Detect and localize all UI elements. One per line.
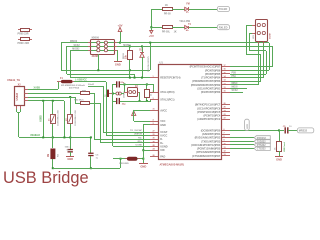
- junction R10 bottom: [146, 100, 148, 102]
- svg-text:UVCC: UVCC: [160, 135, 167, 138]
- svg-text:D-: D-: [160, 138, 163, 141]
- diode D3 (reset protection): [140, 53, 144, 58]
- LED LED1 (green): [185, 7, 188, 10]
- junction D+ Z2: [69, 96, 71, 98]
- wire GND col2: [64, 101, 66, 137]
- svg-text:+5V: +5V: [149, 34, 154, 38]
- wire crystal left: [113, 93, 116, 95]
- svg-text:22mR: 22mR: [88, 84, 94, 86]
- wire Z1 top: [52, 101, 54, 114]
- svg-text:16MHz: 16MHz: [123, 91, 125, 98]
- wire UVCC: [106, 135, 150, 137]
- svg-text:68R: 68R: [82, 90, 86, 92]
- svg-text:P5B: P5B: [232, 73, 237, 75]
- wire RD-: [94, 139, 150, 141]
- junction rail-z1: [52, 136, 54, 138]
- wire nest PB5 to connector left pin: [230, 74, 266, 76]
- wire XTAL1 top: [113, 84, 116, 86]
- svg-text:USHIELD: USHIELD: [30, 135, 40, 137]
- svg-text:SCK2: SCK2: [74, 45, 81, 47]
- ferrite bead L2 (filled): [127, 157, 138, 161]
- svg-text:XTAL1(PC0): XTAL1(PC0): [160, 91, 174, 94]
- svg-text:30: 30: [153, 138, 155, 140]
- X2 pin stubs: [24, 89, 28, 91]
- wire IC GND column: [143, 125, 145, 164]
- junction R10 top: [146, 83, 148, 85]
- wire +5V rail H1 header to nest: [117, 42, 269, 44]
- svg-text:22p: 22p: [120, 82, 124, 84]
- svg-text:CD1206-S01575: CD1206-S01575: [148, 56, 150, 72]
- varistor Z1: [51, 115, 56, 124]
- svg-text:YELLOW: YELLOW: [179, 20, 190, 23]
- X2 shield stubs: [16, 106, 18, 109]
- wire RD+: [100, 142, 150, 144]
- wire RESET net: [71, 77, 150, 79]
- resistor R2 68R: [81, 102, 90, 105]
- svg-text:22: 22: [224, 118, 226, 120]
- wire +5V rail to LED resistors (vertical): [151, 9, 153, 27]
- wire USBVCC: [74, 81, 106, 83]
- svg-text:D+: D+: [160, 142, 164, 145]
- wire header row1 loop down: [61, 43, 63, 70]
- wire JP1 left riser: [124, 84, 126, 92]
- junction rowA loop on rail: [149, 42, 151, 44]
- svg-text:2X2M: 2X2M: [270, 33, 272, 39]
- wire R10 top: [146, 84, 148, 89]
- svg-text:XUSB: XUSB: [34, 87, 41, 89]
- resistor R6 1k: [277, 142, 282, 152]
- svg-text:PAD: PAD: [160, 156, 165, 159]
- svg-text:27: 27: [153, 130, 155, 132]
- svg-text:PR-05: PR-05: [164, 13, 171, 16]
- svg-text:GROUND: GROUND: [119, 163, 129, 165]
- wire USB GND: [28, 100, 64, 102]
- wire UGND column: [43, 101, 45, 137]
- wire nest PB6: [230, 70, 269, 72]
- svg-text:7: 7: [224, 132, 225, 134]
- wire D3 top: [142, 46, 144, 53]
- wire C7 top: [70, 137, 72, 149]
- wire R7 top: [129, 46, 131, 51]
- wire nest PB3 to connector left pin: [230, 81, 261, 83]
- wire header row3 down to reset: [70, 50, 72, 78]
- svg-text:(TXD1/INT3)PD3: (TXD1/INT3)PD3: [201, 140, 221, 143]
- net flag RESET-EXT: [297, 128, 314, 133]
- net flag TXLED: [217, 7, 229, 12]
- svg-text:PR-05L: PR-05L: [162, 31, 171, 34]
- spare resistor R8 22R: [21, 29, 30, 32]
- svg-text:(SS/PCINT0)PB0: (SS/PCINT0)PB0: [201, 91, 221, 94]
- ground GND (C7): [70, 152, 72, 156]
- wire VCC: [134, 121, 150, 123]
- net flag PD3: [254, 139, 270, 143]
- svg-text:(PD02/MOSI/PCINT2)PB2: (PD02/MOSI/PCINT2)PB2: [191, 84, 221, 87]
- svg-text:(RXD1/AIN1/INT2)PD2: (RXD1/AIN1/INT2)PD2: [195, 137, 221, 140]
- svg-text:CG0603MLC-05E: CG0603MLC-05E: [75, 109, 77, 126]
- header right pin stubs: [114, 42, 117, 44]
- net flag vertical (DTR): [245, 119, 250, 130]
- svg-text:31: 31: [153, 134, 155, 136]
- svg-text:MISO2: MISO2: [70, 41, 78, 43]
- svg-text:1K: 1K: [165, 4, 168, 7]
- wire VBUS: [28, 89, 58, 91]
- junction gnd rail c6: [90, 167, 92, 169]
- wire GND pin: [143, 124, 150, 126]
- svg-text:USB-B: USB-B: [16, 93, 19, 101]
- svg-text:6: 6: [224, 129, 225, 131]
- wire USHIELD rail: [19, 137, 91, 139]
- junction R7 rowA crossing: [129, 69, 131, 71]
- wire R4 to LED1: [172, 9, 185, 11]
- junction rail-col2: [63, 136, 65, 138]
- svg-text:(OC1A/PCINT8)PC6: (OC1A/PCINT8)PC6: [197, 107, 221, 110]
- junction ugnd: [142, 149, 144, 151]
- svg-text:RD-: RD-: [138, 137, 142, 139]
- svg-text:L-USBVCC: L-USBVCC: [75, 79, 87, 81]
- wire UCAP: [103, 132, 150, 134]
- svg-text:29: 29: [153, 141, 155, 143]
- junction rail-z2: [69, 136, 71, 138]
- wire PD flag 3: [230, 144, 254, 146]
- svg-text:USBD: USBD: [41, 115, 43, 122]
- wire AVCC: [134, 110, 150, 112]
- svg-text:22p: 22p: [122, 104, 126, 106]
- svg-text:MISO: MISO: [232, 83, 238, 85]
- junction rail2-gnd: [142, 158, 144, 160]
- wire H2 rail to nest: [117, 46, 272, 48]
- svg-text:13: 13: [224, 80, 226, 82]
- LED LED2 (yellow): [185, 26, 188, 29]
- wire Z2 bottom: [70, 124, 72, 137]
- svg-text:3: 3: [153, 98, 154, 100]
- svg-text:PR05 22R: PR05 22R: [18, 33, 29, 36]
- svg-text:USB level: USB level: [284, 142, 286, 152]
- junction GND col1: [42, 100, 44, 102]
- wire PD flag 2: [230, 141, 254, 143]
- header left pin stubs: [88, 42, 91, 44]
- wire Z1 bottom: [52, 124, 54, 137]
- svg-text:SCK2: SCK2: [232, 90, 239, 92]
- svg-text:UCAP: UCAP: [160, 131, 167, 134]
- pin header JP1 1x2: [128, 88, 138, 97]
- capacitor C2 22p: [116, 98, 117, 104]
- IC right pin stubs group PD: [222, 130, 230, 132]
- JP1 pin stubs: [124, 92, 128, 94]
- junction JP1 xtal2 wire: [139, 100, 141, 102]
- junction JP1 xtal wire: [124, 83, 126, 85]
- wire R7 to RESET: [129, 60, 131, 78]
- wire R5 to LED2: [172, 27, 185, 29]
- svg-text:RESET(PCINT14): RESET(PCINT14): [160, 77, 180, 80]
- net flag PD2: [254, 136, 270, 140]
- IC left pin stubs: [150, 77, 158, 79]
- fuse F1 500mA: [57, 81, 61, 83]
- junction D3 top: [141, 45, 143, 47]
- svg-text:(PD0/MISO/PCINT3)PB3: (PD0/MISO/PCINT3)PB3: [192, 80, 221, 83]
- wire gnd rail2: [113, 158, 143, 160]
- wire LED1 to TXLED flag: [189, 9, 217, 11]
- wire C5 to flag: [288, 130, 297, 132]
- svg-text:(T1/PCINT4)PB4: (T1/PCINT4)PB4: [201, 77, 221, 80]
- ground riser (header): [117, 50, 119, 62]
- connector bottom pin stubs: [258, 41, 260, 44]
- wire UID pin: [143, 150, 150, 152]
- junction RESET-row2: [134, 77, 136, 79]
- capacitor C6 1u: [88, 153, 93, 154]
- svg-text:XTAL2(PC1): XTAL2(PC1): [160, 98, 174, 101]
- wire R6 to gnd: [279, 151, 281, 156]
- junction rail-c6: [90, 136, 92, 138]
- wire C2 left: [113, 101, 116, 103]
- svg-text:USB Bridge: USB Bridge: [3, 169, 89, 187]
- wire R1 to RD-: [90, 93, 94, 95]
- svg-text:+5V: +5V: [117, 23, 122, 27]
- svg-text:(RTS/AIN6/INT6)PD6: (RTS/AIN6/INT6)PD6: [196, 151, 221, 154]
- resistor R1 68R: [81, 92, 90, 95]
- wire R3 top: [52, 137, 54, 148]
- svg-text:RN1D: RN1D: [123, 53, 125, 59]
- svg-text:9: 9: [224, 140, 225, 142]
- wire LED2 to RXLED flag: [189, 27, 217, 29]
- junction DTR: [278, 129, 280, 131]
- svg-text:1: 1: [153, 76, 154, 78]
- wire D+: [28, 97, 75, 99]
- svg-text:MOSI2: MOSI2: [72, 49, 80, 51]
- svg-text:1K: 1K: [174, 31, 177, 34]
- IC right pin stubs group PC: [222, 104, 230, 106]
- wires header left pins: [61, 42, 88, 44]
- resistor R5 1K (RX LED): [163, 26, 173, 29]
- junction gnd rail left: [52, 167, 54, 169]
- testpoint TP1: [107, 90, 109, 97]
- junction RESET-D3: [141, 77, 143, 79]
- wire D3 to RESET: [142, 57, 144, 78]
- wire C6 top: [90, 137, 92, 153]
- resistor R3 1M (filled): [50, 149, 55, 160]
- svg-text:11: 11: [224, 87, 226, 89]
- crystal Q1 16MHz: [116, 92, 119, 95]
- svg-text:CTS232: CTS232: [257, 148, 266, 151]
- ground GND (R6): [275, 156, 283, 158]
- svg-text:(PCINT5)PB5: (PCINT5)PB5: [205, 73, 221, 76]
- wire crystal right: [121, 93, 124, 95]
- wire UCAP top tap: [88, 86, 103, 88]
- svg-text:(OC0B/INT0)PD0: (OC0B/INT0)PD0: [201, 129, 221, 132]
- wire row1 +5V to R4: [151, 9, 163, 11]
- svg-text:3: 3: [153, 123, 154, 125]
- svg-text:28: 28: [153, 145, 155, 147]
- wire DTR net: [230, 130, 284, 132]
- svg-text:(CTS/HWB/AIN7/T0)PD7: (CTS/HWB/AIN7/T0)PD7: [192, 155, 221, 158]
- junction +5V arrow tap: [119, 42, 121, 44]
- wire JP1 right riser: [139, 92, 141, 101]
- svg-text:31: 31: [153, 109, 155, 111]
- svg-text:23: 23: [224, 114, 226, 116]
- wire header bottom pin down: [98, 54, 100, 70]
- pin header JP2 2x3: [91, 40, 115, 55]
- svg-text:AVCC: AVCC: [160, 109, 167, 112]
- svg-text:25: 25: [224, 107, 226, 109]
- capacitor C7 100n: [68, 149, 73, 150]
- capacitor C5 100n (series): [285, 127, 286, 133]
- wire PD flag 1: [230, 137, 254, 139]
- svg-text:(PCINT9/OC1B)PC5: (PCINT9/OC1B)PC5: [197, 111, 221, 114]
- wire row1 loop horizontal: [61, 70, 150, 72]
- svg-text:10: 10: [224, 91, 226, 93]
- supply +5V arrow (header rail): [120, 32, 122, 43]
- ground GND (header): [114, 61, 122, 63]
- varistor Z2: [68, 115, 73, 124]
- svg-text:(PCINT12/AIN6)PD5: (PCINT12/AIN6)PD5: [197, 148, 221, 151]
- svg-text:UGND: UGND: [136, 145, 143, 147]
- op-amp U1 ATMEGA8U2 (MCU): [159, 65, 222, 160]
- svg-text:2: 2: [153, 91, 154, 93]
- connector SV1 2x2 (top right): [256, 20, 268, 42]
- wire D- to R1: [28, 93, 81, 95]
- svg-text:12: 12: [224, 83, 226, 85]
- wire USBVCC to UVCC pin: [106, 82, 108, 136]
- wire nest PB4 to connector bottom: [230, 77, 264, 79]
- net flag PD4: [254, 143, 270, 147]
- wire R10 bottom: [146, 98, 148, 101]
- svg-text:VCC: VCC: [160, 120, 165, 123]
- wire row2 +5V to R5: [151, 27, 163, 29]
- wire DTR to R6: [279, 130, 281, 141]
- svg-text:MOSI: MOSI: [232, 87, 238, 89]
- svg-text:FM: FM: [186, 4, 189, 6]
- svg-text:CG0603MLC-05E: CG0603MLC-05E: [58, 109, 60, 126]
- wire C6 bottom: [90, 156, 92, 168]
- svg-text:RD+: RD+: [138, 141, 143, 143]
- svg-text:26: 26: [153, 155, 155, 157]
- wire UCAP riser: [103, 86, 105, 132]
- spare resistor R9 22R: [21, 38, 30, 41]
- wire R3 bottom: [52, 159, 54, 168]
- svg-text:FB2 MLC: FB2 MLC: [74, 100, 84, 102]
- wire row1 loop up to rail: [150, 43, 152, 70]
- junction RESET-R7: [129, 77, 131, 79]
- wire AVCC-VCC link: [133, 110, 135, 115]
- wire PB0 stub: [230, 92, 243, 94]
- svg-text:17: 17: [224, 65, 226, 67]
- svg-text:PR0C 22R: PR0C 22R: [18, 42, 30, 45]
- svg-text:(SCLK/PCINT1)PB1: (SCLK/PCINT1)PB1: [197, 87, 221, 90]
- supply +5V arrow (LED rail, pointing down): [151, 27, 153, 30]
- svg-text:UGND: UGND: [160, 146, 168, 149]
- svg-text:26: 26: [224, 103, 226, 105]
- resistor R10 vertical (HWB pulldown): [145, 90, 150, 98]
- svg-text:100n: 100n: [65, 147, 71, 149]
- supply +5V arrow (AVCC/VCC): [132, 111, 136, 116]
- svg-text:15: 15: [224, 72, 226, 74]
- wire resonator gnd column: [112, 84, 114, 146]
- svg-text:MX056: MX056: [92, 38, 100, 40]
- resistor R7 10k (reset pullup): [128, 51, 133, 60]
- svg-text:(PCINT6)PB6: (PCINT6)PB6: [205, 69, 221, 72]
- wire PD flag 4: [230, 148, 254, 150]
- svg-text:2X3M: 2X3M: [92, 55, 98, 58]
- wire D+ bend to R2: [75, 97, 77, 103]
- svg-text:(PCINT7/OC0A/OC1C)PB7: (PCINT7/OC0A/OC1C)PB7: [190, 66, 221, 69]
- wire nest PB7: [230, 66, 272, 68]
- ground GND (IC): [139, 163, 148, 165]
- wire C1 to XTAL1 pin: [120, 84, 153, 86]
- junction header pin rowA: [97, 69, 99, 71]
- svg-text:(PCINT10)PC4: (PCINT10)PC4: [203, 115, 220, 118]
- svg-text:GND: GND: [160, 124, 166, 127]
- svg-text:(AIN2/PCINT11)PC2: (AIN2/PCINT11)PC2: [197, 118, 221, 121]
- capacitor C1 22p: [116, 81, 117, 87]
- svg-text:(AIN0/INT1)PD1: (AIN0/INT1)PD1: [202, 133, 221, 136]
- resistor R4 1K (TX LED): [163, 8, 173, 11]
- wire shield down: [18, 112, 20, 137]
- junction GND Z1: [52, 100, 54, 102]
- connector left pin stubs: [252, 25, 255, 27]
- wire nest PB2 to connector bottom: [230, 84, 258, 86]
- svg-text:1M: 1M: [48, 154, 50, 157]
- wire R2 to RD+: [90, 103, 100, 105]
- svg-text:USBVW: USBVW: [134, 134, 143, 136]
- junction rail-ugnd: [42, 136, 44, 138]
- svg-text:12: 12: [224, 151, 226, 153]
- wire header row2 loop down: [66, 46, 68, 74]
- svg-text:8: 8: [224, 136, 225, 138]
- net flag PD5: [254, 147, 270, 151]
- svg-text:(INT4/ICP1/CLK0)PC7: (INT4/ICP1/CLK0)PC7: [195, 104, 221, 107]
- wire gnd rail riser: [120, 159, 122, 168]
- svg-text:DTR: DTR: [247, 124, 249, 129]
- IC right pin stubs group PB: [222, 66, 230, 68]
- wire C2 to XTAL2 pin: [120, 101, 151, 103]
- svg-text:UID: UID: [160, 149, 165, 152]
- svg-text:13: 13: [224, 154, 226, 156]
- junction rail2: [120, 158, 122, 160]
- junction on +5V LED rail: [150, 26, 152, 28]
- wire Z2 top: [70, 97, 72, 114]
- wire UGND row: [113, 146, 150, 148]
- net flag RXLED: [217, 25, 229, 30]
- wire row2 loop horizontal: [67, 74, 134, 76]
- wire row2 to reset: [134, 74, 136, 78]
- wire PB1 stub: [230, 88, 247, 90]
- svg-text:(XCK/AIN4/PCINT12)PD4: (XCK/AIN4/PCINT12)PD4: [191, 144, 221, 147]
- svg-text:10: 10: [224, 143, 226, 145]
- junction R7 top: [129, 45, 131, 47]
- wire bottom gnd rail: [53, 168, 120, 170]
- svg-text:16: 16: [224, 69, 226, 71]
- svg-text:11: 11: [224, 147, 226, 149]
- junction crystal mid: [112, 93, 114, 95]
- wire X2 shield join: [16, 109, 18, 112]
